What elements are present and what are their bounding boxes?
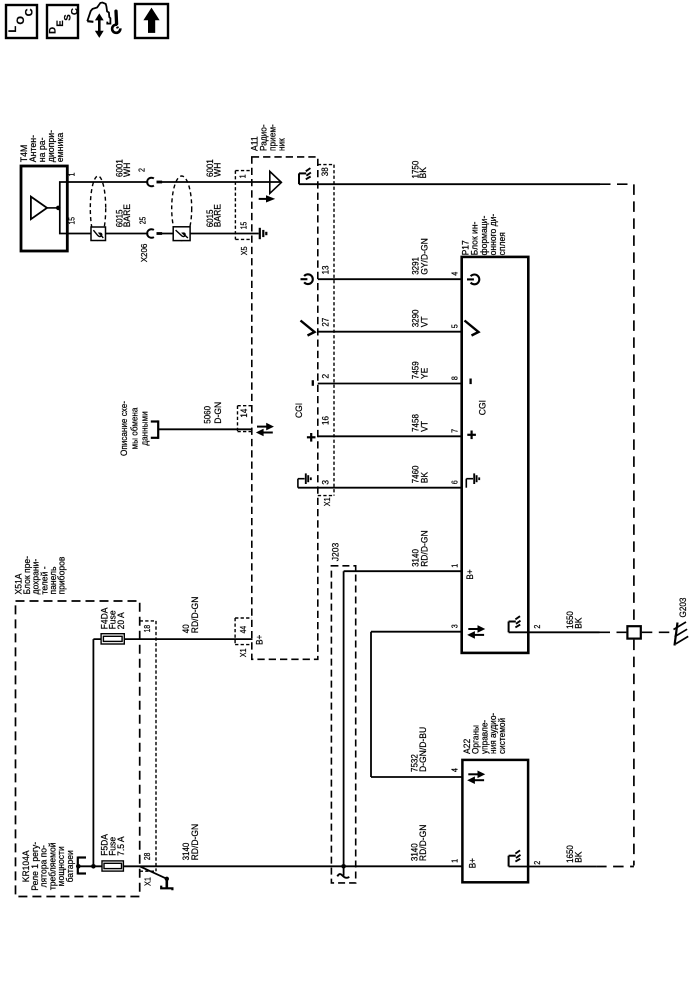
svg-text:3: 3 (320, 480, 330, 485)
svg-text:D: D (48, 27, 59, 34)
svg-text:15: 15 (239, 221, 248, 229)
svg-text:GY/D-GN: GY/D-GN (419, 238, 429, 275)
svg-text:RD/D-GN: RD/D-GN (419, 530, 429, 567)
svg-text:BARE: BARE (122, 204, 132, 227)
svg-text:4: 4 (451, 767, 460, 772)
svg-text:D-GN/D-BU: D-GN/D-BU (418, 727, 428, 772)
svg-text:BK: BK (418, 166, 428, 178)
svg-text:RD/D-GN: RD/D-GN (418, 825, 428, 862)
svg-text:сплея: сплея (497, 232, 507, 255)
svg-text:3: 3 (451, 624, 460, 628)
svg-text:18: 18 (143, 625, 152, 633)
svg-text:BK: BK (419, 471, 429, 483)
svg-text:28: 28 (143, 853, 152, 861)
svg-text:7: 7 (451, 429, 460, 433)
svg-text:27: 27 (320, 318, 330, 327)
svg-text:B+: B+ (465, 569, 475, 579)
svg-text:25: 25 (139, 216, 148, 224)
svg-text:VT: VT (419, 421, 429, 432)
svg-text:X1: X1 (144, 877, 153, 886)
svg-text:16: 16 (320, 416, 330, 425)
svg-text:2: 2 (320, 374, 330, 379)
svg-text:CGI: CGI (294, 403, 304, 418)
svg-text:1: 1 (67, 173, 76, 177)
svg-text:системой: системой (497, 718, 507, 754)
svg-text:2: 2 (533, 625, 542, 629)
svg-text:L: L (7, 26, 19, 33)
svg-text:X1: X1 (239, 648, 248, 657)
svg-text:15: 15 (68, 216, 77, 224)
svg-text:Описание схе-: Описание схе- (119, 401, 129, 456)
svg-text:G203: G203 (678, 597, 688, 617)
svg-text:X206: X206 (139, 243, 149, 262)
svg-text:2: 2 (533, 861, 542, 865)
svg-text:приборов: приборов (57, 557, 67, 595)
svg-text:13: 13 (320, 266, 330, 275)
svg-text:WH: WH (122, 163, 132, 177)
svg-text:38: 38 (320, 167, 330, 176)
svg-text:X5: X5 (240, 246, 249, 256)
svg-text:CGI: CGI (477, 400, 487, 415)
svg-text:BK: BK (573, 617, 583, 629)
svg-text:RD/D-GN: RD/D-GN (190, 824, 200, 861)
svg-text:C: C (70, 8, 81, 15)
svg-text:YE: YE (419, 368, 429, 379)
svg-text:B+: B+ (467, 858, 477, 868)
svg-text:BK: BK (573, 851, 583, 863)
svg-text:B+: B+ (255, 635, 265, 645)
svg-text:емника: емника (55, 132, 65, 162)
svg-text:2: 2 (137, 168, 146, 172)
svg-text:C: C (23, 8, 35, 16)
svg-text:RD/D-GN: RD/D-GN (190, 597, 200, 634)
svg-text:X1: X1 (323, 497, 332, 506)
svg-text:WH: WH (213, 163, 223, 177)
svg-text:BARE: BARE (213, 204, 223, 227)
svg-text:8: 8 (451, 376, 460, 380)
svg-text:1: 1 (239, 174, 248, 178)
svg-text:14: 14 (239, 409, 249, 418)
svg-text:мы обмена: мы обмена (129, 407, 139, 450)
svg-text:4: 4 (451, 271, 460, 276)
svg-text:7.5 A: 7.5 A (116, 836, 126, 856)
svg-text:D-GN: D-GN (213, 402, 223, 424)
svg-text:5: 5 (451, 324, 460, 329)
svg-text:VT: VT (419, 316, 429, 327)
svg-text:1: 1 (451, 564, 460, 568)
svg-text:20 A: 20 A (116, 612, 126, 630)
svg-text:ник: ник (276, 137, 286, 151)
svg-text:батареи: батареи (65, 850, 75, 882)
svg-text:44: 44 (239, 625, 248, 633)
svg-text:1: 1 (451, 859, 460, 863)
svg-text:J203: J203 (331, 543, 341, 562)
svg-text:5060: 5060 (203, 406, 213, 424)
svg-text:данными: данными (139, 411, 149, 445)
svg-text:6: 6 (451, 480, 460, 484)
